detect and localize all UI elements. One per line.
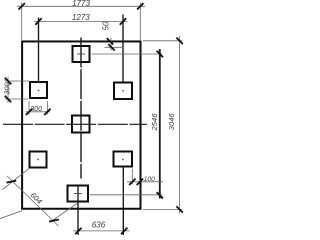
pad S4 center — [72, 116, 90, 133]
centerline middle row — [3, 123, 147, 125]
svg-text:100: 100 — [144, 176, 156, 183]
centerline left column — [38, 18, 40, 82]
centerline bottom-center column — [77, 185, 79, 236]
dimension 2546 (right, pad centers) — [159, 49, 161, 199]
pad S6 lower-right — [114, 152, 133, 167]
dimension 636 (bottom) — [73, 230, 130, 232]
dimension 1773 (top, overall width) — [17, 3, 145, 41]
pad S7 bottom-center — [68, 186, 89, 202]
dimension 100 (bottom right) — [127, 169, 163, 185]
dimension 3046 (right, overall height) — [143, 36, 182, 214]
pad S5 lower-left — [30, 152, 47, 168]
svg-text:300: 300 — [2, 83, 11, 95]
centerline right column top — [122, 15, 124, 82]
svg-text:2546: 2546 — [150, 113, 159, 132]
pad S2 upper-left — [30, 82, 47, 98]
svg-text:1273: 1273 — [72, 13, 90, 22]
dimension 300 (left, pad height) — [5, 77, 30, 104]
dimension 50 (top step) — [105, 38, 124, 51]
svg-text:300: 300 — [30, 104, 42, 113]
pad S3 upper-right — [114, 83, 132, 100]
centerline center column — [80, 38, 82, 179]
svg-text:636: 636 — [92, 220, 106, 229]
pad center marks — [74, 54, 85, 194]
svg-text:1773: 1773 — [72, 0, 90, 8]
svg-text:3046: 3046 — [167, 113, 176, 131]
pad S1 top-center — [73, 46, 90, 62]
centerline right column bottom — [122, 167, 124, 235]
dimension 1273 (top) — [34, 21, 128, 23]
dimension 604 (diagonal, bottom-left) — [0, 169, 77, 226]
dimension 300 (below upper-left pad, pad width) — [26, 101, 51, 115]
svg-text:50: 50 — [102, 21, 111, 30]
main foundation outline — [22, 41, 140, 208]
